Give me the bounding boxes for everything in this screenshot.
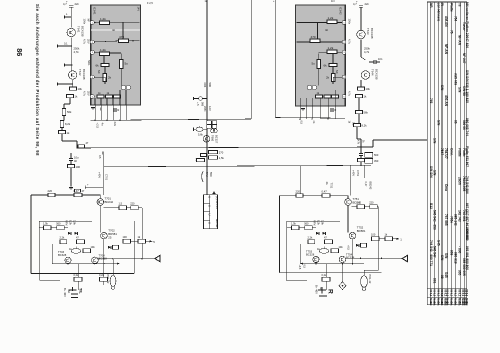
svg-text:10k: 10k	[339, 245, 344, 249]
transistor T752	[349, 232, 356, 239]
svg-text:Stk: Stk	[453, 302, 457, 307]
svg-text:BC338: BC338	[346, 256, 355, 260]
svg-text:4A: 4A	[67, 290, 71, 293]
amp R outer left	[279, 196, 281, 273]
svg-text:220: 220	[296, 190, 301, 194]
pin 5	[90, 95, 94, 99]
svg-text:S45: S45	[436, 240, 440, 246]
resistor R656	[354, 124, 361, 127]
svg-text:22n: 22n	[365, 2, 370, 6]
transistor T751	[345, 199, 352, 206]
internal transistor pair	[121, 85, 126, 90]
svg-text:S/N S/N 535-1 189 825: S/N S/N 535-1 189 825	[465, 70, 469, 103]
page divider / table frame	[426, 2, 428, 305]
internal resistor 6	[97, 95, 104, 98]
svg-text:ZPD: ZPD	[203, 106, 207, 111]
internal resistor 1	[100, 21, 110, 25]
svg-text:767 985: 767 985	[444, 214, 448, 226]
rail 12V (center-left)	[206, 0, 208, 195]
chain1R resistor a	[357, 205, 365, 209]
wire	[70, 37, 72, 71]
fuse ellipse L	[110, 276, 116, 287]
svg-text:S/N: S/N	[444, 253, 448, 259]
box row R wires	[287, 227, 292, 229]
resistor R752	[322, 194, 330, 197]
feed to right amp	[350, 165, 352, 195]
svg-text:MEßW.: MEßW.	[215, 219, 219, 228]
resistor R701	[48, 193, 55, 196]
svg-text:4,7u: 4,7u	[83, 39, 87, 45]
transistor T643	[357, 30, 365, 38]
svg-text:BD242: BD242	[105, 200, 114, 204]
svg-text:T641: T641	[77, 26, 81, 33]
resistor R666	[209, 151, 218, 154]
svg-text:985 142: 985 142	[453, 214, 457, 226]
pin 1 right	[342, 21, 346, 25]
diode D701	[68, 232, 71, 235]
capacitor C645	[69, 158, 73, 160]
internal wire	[337, 51, 342, 53]
svg-text:250k: 250k	[364, 47, 370, 51]
svg-text:POL-12: POL-12	[368, 275, 372, 284]
svg-text:4A: 4A	[319, 287, 323, 290]
chain1R wires	[351, 206, 357, 208]
chain2 box a	[123, 239, 131, 243]
svg-text:100n: 100n	[348, 19, 352, 25]
svg-text:5u: 5u	[312, 62, 316, 66]
svg-text:Oma: Oma	[444, 184, 448, 191]
svg-text:zcn Hinweis: zcn Hinweis	[436, 3, 440, 21]
internal wire	[337, 22, 342, 24]
svg-text:4,7u: 4,7u	[348, 39, 352, 45]
svg-text:TIL: TIL	[79, 288, 83, 294]
svg-text:T644: T644	[371, 69, 375, 76]
svg-text:744 543 986: 744 543 986	[465, 176, 469, 194]
svg-text:250k: 250k	[74, 47, 80, 51]
svg-text:5u: 5u	[125, 62, 129, 66]
svg-text:Sie auch Änderungen während de: Sie auch Änderungen während der Produkti…	[35, 4, 40, 156]
resistor R648	[68, 165, 75, 168]
internal wire	[95, 22, 100, 24]
svg-text:BD581: BD581	[357, 229, 366, 233]
internal wire	[95, 51, 100, 54]
transistor T644	[361, 71, 369, 79]
junction cluster bus1 left end	[78, 145, 85, 148]
svg-text:7547: 7547	[440, 148, 444, 155]
svg-text:980 919: 980 919	[453, 252, 457, 264]
internal resistor r1	[327, 20, 337, 24]
bus under IC blocks right segment	[275, 117, 345, 120]
resistor R668	[197, 159, 205, 162]
svg-text:Te: Te	[457, 3, 461, 7]
svg-text:NF-AN: NF-AN	[444, 44, 448, 55]
chain2R box b	[385, 237, 393, 241]
svg-text:+40V: +40V	[352, 170, 356, 176]
pins to bus left	[94, 105, 96, 120]
amp L inner rect	[38, 221, 40, 280]
IC module right (shaded)	[296, 5, 346, 106]
svg-text:801: 801	[433, 278, 437, 284]
amp L outer left	[30, 195, 32, 274]
svg-text:Stk: Stk	[450, 302, 454, 307]
svg-text:Stk: Stk	[446, 302, 450, 307]
svg-text:754727: 754727	[444, 148, 448, 159]
svg-text:Platte: Platte	[457, 148, 461, 157]
svg-text:Stk: Stk	[457, 302, 461, 307]
wires below bus	[77, 264, 79, 278]
svg-text:100n: 100n	[83, 19, 87, 25]
svg-text:S/N: S/N	[436, 120, 440, 126]
svg-text:S/N: S/N	[440, 85, 444, 91]
wires to emitter bus R	[352, 239, 354, 264]
emitter bus L	[52, 263, 117, 265]
svg-text:990: 990	[201, 102, 204, 107]
svg-text:U: U	[207, 214, 211, 216]
svg-text:Pl: Pl	[440, 3, 444, 6]
amp R top rail	[280, 195, 349, 197]
transistor T642	[69, 71, 77, 79]
svg-text:390: 390	[374, 159, 379, 163]
internal capacitor r	[317, 60, 321, 69]
small symbols below block	[91, 107, 95, 109]
svg-text:14V: 14V	[137, 7, 141, 12]
resistor R760	[331, 249, 339, 253]
internal resistor 5	[103, 74, 107, 82]
wire	[63, 116, 65, 121]
svg-text:4n: 4n	[112, 28, 116, 32]
svg-text:8,2: 8,2	[457, 293, 461, 297]
svg-text:5,6k: 5,6k	[198, 133, 204, 137]
wire	[99, 195, 101, 199]
capacitor C667	[201, 154, 207, 157]
resistor near ground	[75, 189, 81, 192]
diode and box mid	[108, 246, 111, 249]
svg-text:965: 965	[457, 270, 461, 276]
svg-text:1,5k: 1,5k	[219, 156, 225, 160]
svg-text:1,2k: 1,2k	[100, 17, 106, 21]
resistor R751	[296, 194, 303, 197]
svg-text:470: 470	[119, 35, 124, 39]
output line L	[98, 258, 154, 260]
svg-text:8,2k: 8,2k	[362, 124, 368, 128]
svg-text:1,2k: 1,2k	[100, 48, 106, 52]
svg-text:8,2: 8,2	[433, 293, 437, 297]
resistor R761	[322, 277, 330, 281]
box row R a	[292, 226, 300, 230]
measurement table	[204, 195, 218, 229]
capacitor C641	[69, 4, 73, 6]
svg-text:1N: 1N	[331, 0, 334, 3]
svg-text:U: U	[207, 205, 211, 207]
svg-text:F 2,5: F 2,5	[147, 1, 153, 5]
svg-text:T642: T642	[78, 69, 82, 76]
transistor T660	[203, 136, 210, 143]
svg-text:560: 560	[56, 221, 61, 225]
svg-text:744 543 - 990 771: 744 543 - 990 771	[429, 240, 433, 266]
pin 3	[90, 50, 94, 54]
resistor R653	[358, 87, 365, 90]
svg-text:4n: 4n	[325, 28, 329, 32]
svg-text:10u: 10u	[74, 156, 79, 160]
svg-text:25: 25	[108, 235, 112, 239]
svg-text:2k: 2k	[326, 76, 330, 80]
svg-text:86: 86	[15, 48, 24, 56]
wire	[347, 196, 349, 199]
svg-text:965 981 899 806: 965 981 899 806	[465, 246, 469, 270]
svg-text:IC641: IC641	[93, 7, 97, 15]
svg-text:NF-AN: NF-AN	[457, 35, 461, 46]
svg-text:T643: T643	[366, 28, 370, 35]
terminal lead mid	[85, 186, 103, 188]
svg-text:4,7k: 4,7k	[74, 50, 80, 54]
svg-text:765: 765	[429, 98, 433, 104]
svg-text:BC327: BC327	[215, 135, 219, 144]
terminal lead y46	[58, 45, 72, 47]
pin 3 right	[342, 50, 346, 54]
svg-text:980 065 744: 980 065 744	[465, 118, 469, 136]
pin 2 right	[342, 40, 346, 44]
capacitor C646	[359, 153, 363, 155]
svg-text:Mit weiteren Platten 29647-826: Mit weiteren Platten 29647-826	[465, 2, 469, 48]
svg-text:1,5k: 1,5k	[43, 221, 49, 225]
svg-text:0,1: 0,1	[64, 42, 68, 46]
svg-text:754: 754	[453, 16, 457, 22]
chain2 terminal arrow	[131, 240, 139, 242]
svg-text:8,2: 8,2	[450, 293, 454, 297]
chain2 box b	[138, 239, 146, 243]
small symbols below block r	[301, 108, 305, 110]
transistor T704	[92, 257, 99, 264]
speaker terminal R	[318, 289, 326, 291]
output line R	[346, 257, 402, 259]
svg-text:220: 220	[48, 189, 53, 193]
wires to emitter bus	[67, 262, 69, 264]
svg-text:8,2: 8,2	[446, 293, 450, 297]
svg-text:NF 247: NF 247	[462, 53, 466, 64]
svg-text:142 743: 142 743	[457, 210, 461, 222]
resistor R758	[325, 240, 333, 244]
svg-text:C04: C04	[203, 83, 207, 88]
diode D752	[322, 232, 325, 235]
svg-text:8,2: 8,2	[436, 293, 440, 297]
diode D702	[74, 232, 77, 235]
svg-text:2,2k: 2,2k	[308, 236, 314, 240]
resistor R710	[83, 249, 91, 253]
svg-text:BD242: BD242	[368, 182, 372, 190]
svg-text:B12: B12	[429, 203, 433, 209]
chain2R box a	[372, 237, 380, 241]
svg-text:1,5k: 1,5k	[291, 221, 297, 225]
resistor R708	[77, 240, 85, 244]
svg-text:Stk: Stk	[429, 302, 433, 307]
svg-text:22n: 22n	[75, 2, 80, 6]
resistor R667	[209, 156, 218, 159]
svg-text:545 547: 545 547	[433, 246, 437, 258]
internal resistor r5	[332, 74, 336, 82]
svg-text:8,2k: 8,2k	[65, 122, 71, 126]
box row R b	[305, 226, 313, 230]
transistor T703	[65, 257, 71, 263]
resistor cluster below bus	[207, 121, 212, 125]
svg-text:+40V: +40V	[98, 172, 102, 178]
terminal input L	[65, 16, 72, 18]
pin 5 right	[342, 95, 346, 99]
svg-text:S/N: S/N	[433, 170, 437, 176]
speaker terminal L	[69, 289, 77, 291]
internal resistor 3	[100, 52, 110, 56]
rail third	[274, 0, 276, 118]
scan streak	[91, 29, 140, 31]
resistor R646	[60, 121, 63, 128]
internal resistor r4	[329, 64, 337, 67]
internal wire	[318, 54, 320, 60]
svg-text:BC413B: BC413B	[82, 69, 86, 80]
pins to bus right block	[299, 98, 301, 119]
svg-text:500: 500	[208, 83, 212, 88]
svg-text:430-AN: 430-AN	[444, 95, 448, 107]
cluster circles	[211, 129, 215, 133]
internal resistor r2	[310, 39, 320, 43]
internal wire	[320, 41, 342, 43]
bus line lower	[104, 165, 371, 167]
svg-text:2,2k: 2,2k	[60, 236, 66, 240]
svg-text:10n: 10n	[378, 57, 383, 61]
svg-text:T660: T660	[211, 135, 215, 142]
marker triangle	[212, 191, 215, 194]
terminal lead y84	[58, 83, 73, 85]
corner to fuse R	[364, 269, 379, 271]
svg-text:(2)-12V-13: (2)-12V-13	[215, 196, 219, 209]
resistor R713	[74, 277, 82, 281]
svg-text:BC328: BC328	[306, 253, 315, 257]
svg-text:8,2: 8,2	[465, 293, 469, 297]
transistor T701	[97, 199, 104, 206]
wire	[358, 114, 360, 124]
diode D751	[316, 232, 319, 235]
svg-text:POL-12: POL-12	[106, 275, 110, 284]
svg-text:25V: 25V	[86, 39, 90, 44]
svg-text:0,47: 0,47	[364, 182, 368, 188]
zener bracket	[202, 172, 203, 182]
pin 4 right	[342, 75, 346, 79]
svg-text:Stk: Stk	[433, 302, 437, 307]
resistor R645	[62, 109, 65, 116]
amp L bottom boundary	[31, 273, 134, 275]
svg-text:560: 560	[374, 153, 379, 157]
svg-text:C701: C701	[105, 174, 109, 181]
internal wire	[95, 41, 119, 42]
pin 2	[90, 40, 94, 44]
svg-text:U: U	[207, 196, 211, 198]
svg-text:8,2: 8,2	[453, 293, 457, 297]
svg-text:100: 100	[123, 235, 128, 239]
chain2R terminal arrow	[379, 238, 385, 240]
trimmer on rail	[199, 97, 203, 101]
svg-text:NF: NF	[97, 70, 101, 74]
svg-text:A95 449: A95 449	[453, 73, 457, 85]
svg-text:220: 220	[369, 201, 374, 205]
svg-text:NF/L: NF/L	[87, 60, 91, 66]
amp R bottom boundary	[280, 272, 382, 274]
amp L right boundary	[133, 221, 135, 274]
internal resistor r3	[327, 50, 337, 54]
svg-text:NR: NR	[429, 3, 433, 8]
pin 4	[90, 75, 94, 79]
svg-text:Stk: Stk	[465, 302, 469, 307]
box row resistor a	[44, 226, 52, 230]
resistor R709	[60, 240, 67, 244]
IC module left (shaded)	[91, 5, 141, 105]
wire	[358, 98, 360, 111]
chain1 wires	[104, 207, 119, 209]
table top edge	[427, 1, 467, 3]
svg-text:10k: 10k	[78, 87, 83, 91]
thermal diamond	[339, 282, 346, 290]
resistor R714	[100, 277, 108, 281]
output triangle L	[155, 255, 160, 262]
resistor R655	[356, 111, 363, 114]
svg-text:T751: T751	[329, 183, 333, 189]
internal resistor 4	[101, 64, 109, 67]
feed to left amp	[102, 153, 104, 195]
svg-text:4A: 4A	[325, 182, 329, 185]
svg-text:Omn.: Omn.	[450, 148, 454, 156]
svg-text:10k: 10k	[366, 87, 371, 91]
svg-text:969: 969	[450, 250, 454, 256]
internal transistor pair r	[307, 85, 312, 90]
terminal lead 2	[65, 64, 73, 66]
svg-text:NFM: NFM	[65, 220, 69, 226]
bus line upper	[77, 147, 373, 148]
fuse ellipse R	[361, 276, 368, 288]
bus under IC blocks left segment	[91, 119, 252, 120]
svg-text:3,9k: 3,9k	[73, 220, 77, 226]
wire	[360, 162, 362, 166]
svg-text:B+ 40V: B+ 40V	[63, 288, 67, 297]
svg-text:C751: C751	[356, 170, 360, 177]
chain1 resistor b	[131, 206, 139, 210]
svg-text:BC413B: BC413B	[80, 26, 84, 37]
svg-text:3,9k: 3,9k	[321, 220, 325, 226]
transistor T754	[339, 256, 346, 263]
svg-text:NF: NF	[86, 19, 90, 23]
svg-text:4,7u: 4,7u	[83, 91, 87, 97]
svg-text:2achl: 2achl	[457, 177, 461, 185]
bus jog to table	[372, 140, 374, 147]
svg-text:NFM: NFM	[313, 220, 317, 226]
rail second (center)	[250, 0, 252, 119]
svg-text:S/N: S/N	[433, 138, 437, 144]
svg-text:8,2: 8,2	[429, 293, 433, 297]
table header band lines	[427, 287, 467, 289]
wire	[206, 159, 208, 166]
capacitor C644	[373, 60, 375, 64]
diode and box mid R	[356, 244, 359, 247]
svg-text:10k: 10k	[91, 245, 96, 249]
svg-text:2k: 2k	[108, 76, 112, 80]
capacitor C643	[359, 4, 363, 6]
ground	[69, 187, 73, 189]
svg-text:22n: 22n	[113, 122, 117, 127]
internal resistor 2	[119, 39, 129, 43]
svg-text:1,2k: 1,2k	[328, 16, 334, 20]
svg-text:1,2k: 1,2k	[328, 46, 334, 50]
svg-text:BC413B: BC413B	[374, 69, 378, 80]
svg-text:S/N: S/N	[457, 87, 461, 93]
svg-text:8,2k: 8,2k	[69, 220, 73, 226]
resistor R654	[356, 95, 363, 98]
svg-text:U: U	[207, 222, 211, 224]
